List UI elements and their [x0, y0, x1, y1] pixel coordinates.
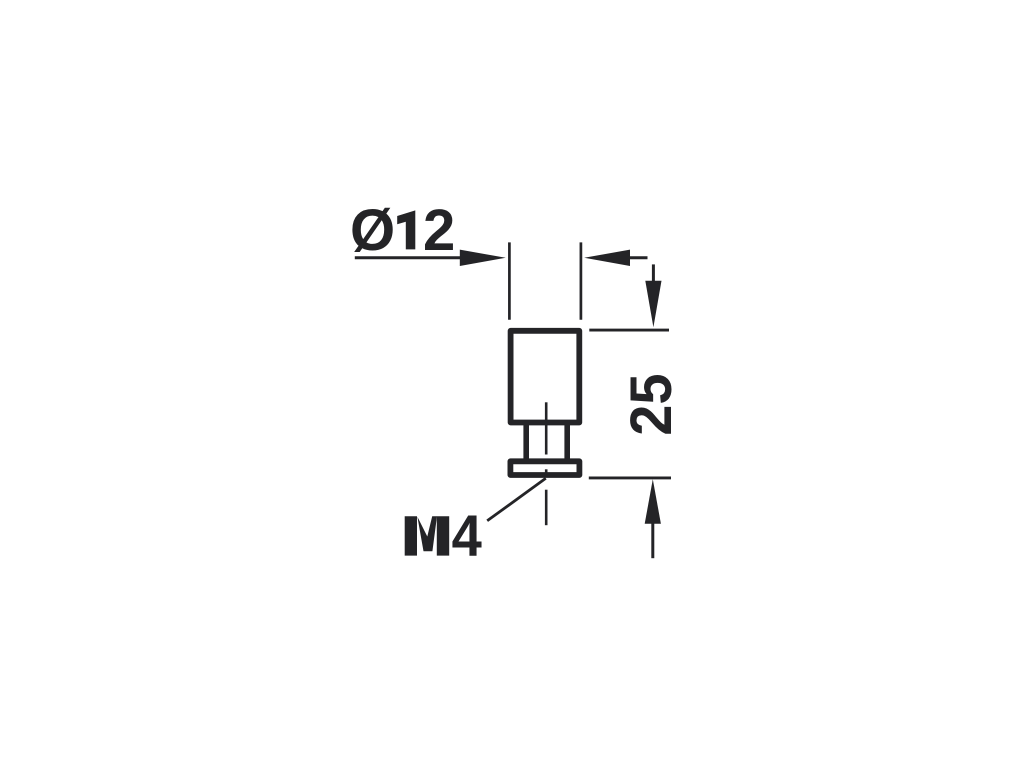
svg-text:Ø: Ø: [350, 198, 395, 263]
svg-text:4: 4: [452, 504, 482, 569]
svg-text:2: 2: [423, 198, 455, 263]
svg-text:25: 25: [619, 374, 684, 436]
